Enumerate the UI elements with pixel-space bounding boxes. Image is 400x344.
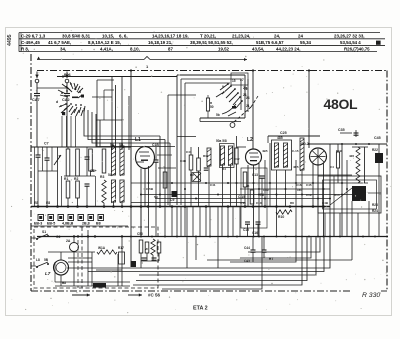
- svg-text:48OL: 48OL: [324, 96, 359, 112]
- svg-text:S1: S1: [42, 230, 46, 234]
- svg-text:R14: R14: [334, 193, 340, 197]
- svg-text:R10: R10: [278, 215, 284, 219]
- svg-text:C19: C19: [263, 188, 269, 192]
- svg-text:C16: C16: [252, 231, 258, 235]
- svg-text:R3: R3: [190, 173, 194, 177]
- svg-text:C7: C7: [44, 142, 49, 146]
- svg-text:EB-3: EB-3: [34, 222, 42, 226]
- svg-text:C35: C35: [338, 128, 345, 132]
- svg-text:53,54,54 4: 53,54,54 4: [340, 40, 361, 45]
- svg-text:C4B: C4B: [180, 159, 187, 163]
- svg-text:B8: B8: [62, 281, 66, 285]
- svg-text:50: 50: [210, 105, 214, 109]
- svg-text:5b: 5b: [216, 113, 220, 117]
- svg-text:R2: R2: [74, 177, 78, 181]
- svg-text:T 20,21,: T 20,21,: [200, 34, 216, 39]
- svg-text:C45: C45: [244, 259, 250, 263]
- svg-text:C45: C45: [374, 136, 381, 140]
- svg-text:485: 485: [277, 136, 283, 140]
- svg-text:E8: E8: [46, 201, 50, 205]
- svg-text:34,: 34,: [60, 46, 66, 51]
- svg-text:R4: R4: [222, 167, 226, 171]
- svg-text:5B: 5B: [44, 258, 49, 262]
- svg-text:8,9,10A,12 E 15,: 8,9,10A,12 E 15,: [88, 40, 121, 45]
- svg-text:R17: R17: [118, 246, 124, 250]
- svg-text:CA2: CA2: [62, 98, 70, 102]
- svg-text:21: 21: [243, 93, 247, 97]
- svg-text:R6: R6: [260, 193, 264, 197]
- svg-text:C4: C4: [330, 165, 334, 169]
- svg-text:5B: 5B: [119, 143, 124, 147]
- svg-text:R26,(7)40,75: R26,(7)40,75: [344, 46, 370, 51]
- svg-text:L8: L8: [36, 258, 40, 262]
- svg-text:14,23,16,17 18 19,: 14,23,16,17 18 19,: [152, 34, 189, 39]
- svg-text:C41: C41: [210, 183, 216, 187]
- svg-text:160: 160: [297, 188, 302, 192]
- svg-text:50a 5/8: 50a 5/8: [216, 139, 227, 143]
- svg-text:CA7: CA7: [32, 98, 40, 102]
- svg-text:R24: R24: [372, 209, 378, 213]
- svg-text:2B,8: 2B,8: [82, 222, 90, 226]
- svg-text:R1: R1: [64, 177, 68, 181]
- svg-text:C50: C50: [137, 232, 143, 236]
- svg-text:C1B: C1B: [152, 143, 159, 147]
- svg-text:4,8B,B: 4,8B,B: [62, 222, 74, 226]
- svg-text:C4B: C4B: [322, 201, 329, 205]
- svg-text:4,41A,: 4,41A,: [100, 46, 113, 51]
- svg-text:21,23,24,: 21,23,24,: [232, 34, 250, 39]
- svg-text:43,54,: 43,54,: [252, 46, 264, 51]
- svg-text:B8: B8: [96, 222, 101, 226]
- svg-text:55,34: 55,34: [300, 40, 312, 45]
- svg-text:27: 27: [240, 78, 244, 82]
- svg-text:L2: L2: [247, 137, 253, 143]
- svg-text:5A: 5A: [110, 143, 115, 147]
- svg-text:6, 6,: 6, 6,: [119, 34, 128, 39]
- svg-text:2b: 2b: [243, 86, 247, 90]
- svg-text:R 8,: R 8,: [21, 46, 29, 51]
- svg-text:EB-5: EB-5: [47, 222, 55, 226]
- svg-text:#C 56: #C 56: [148, 293, 161, 298]
- svg-text:d: d: [56, 100, 58, 104]
- svg-text:C41: C41: [186, 150, 192, 154]
- svg-text:R22: R22: [372, 148, 378, 152]
- svg-text:51B,75 6.6,57: 51B,75 6.6,57: [256, 40, 284, 45]
- svg-text:10,15,: 10,15,: [102, 34, 114, 39]
- svg-text:4,10: 4,10: [240, 201, 246, 205]
- svg-text:C6: C6: [56, 235, 60, 239]
- svg-text:R 330: R 330: [362, 292, 380, 299]
- svg-text:16,18,19 21,: 16,18,19 21,: [148, 40, 172, 45]
- svg-text:C25: C25: [280, 131, 287, 135]
- svg-text:23,26,27 32 33,: 23,26,27 32 33,: [334, 34, 365, 39]
- svg-text:24: 24: [298, 34, 303, 39]
- svg-text:24,: 24,: [274, 34, 280, 39]
- svg-text:30,8 5/40 8,31: 30,8 5/40 8,31: [62, 34, 91, 39]
- svg-text:C45: C45: [306, 183, 312, 187]
- svg-text:C-29 6,7 1,3: C-29 6,7 1,3: [21, 34, 46, 39]
- svg-text:87: 87: [168, 46, 173, 51]
- svg-text:4B5: 4B5: [262, 149, 268, 153]
- svg-text:C44: C44: [244, 246, 250, 250]
- svg-text:C15: C15: [243, 228, 249, 232]
- svg-text:W1A: W1A: [98, 246, 106, 250]
- svg-text:C-15: C-15: [292, 149, 299, 153]
- svg-text:15: 15: [232, 79, 236, 83]
- svg-text:B06: B06: [64, 73, 71, 77]
- svg-text:C-49A,45: C-49A,45: [21, 40, 40, 45]
- svg-text:R23: R23: [372, 203, 378, 207]
- svg-text:4495: 4495: [7, 34, 13, 46]
- svg-text:44,22,23 24,: 44,22,23 24,: [276, 46, 300, 51]
- svg-text:8,10,: 8,10,: [130, 46, 140, 51]
- svg-text:C-5B: C-5B: [146, 187, 154, 191]
- svg-text:45: 45: [246, 184, 250, 188]
- svg-text:L1: L1: [135, 137, 141, 143]
- svg-text:2A: 2A: [66, 239, 71, 243]
- svg-text:426: 426: [349, 154, 354, 158]
- svg-text:5A: 5A: [108, 173, 113, 177]
- svg-text:ETA 2: ETA 2: [193, 306, 208, 312]
- svg-text:R3: R3: [100, 175, 104, 179]
- svg-text:41 6,7 5AE,: 41 6,7 5AE,: [48, 40, 71, 45]
- svg-text:9: 9: [222, 85, 224, 89]
- svg-text:R8: R8: [290, 201, 294, 205]
- svg-text:C13: C13: [252, 173, 258, 177]
- svg-text:R7: R7: [269, 257, 273, 261]
- svg-text:C8: C8: [90, 169, 94, 173]
- svg-text:C16: C16: [296, 183, 302, 187]
- svg-text:38,39,51 50,51,55 52,: 38,39,51 50,51,55 52,: [190, 40, 233, 45]
- svg-text:19,52: 19,52: [218, 46, 230, 51]
- svg-text:C19: C19: [306, 193, 312, 197]
- svg-text:W: W: [145, 247, 148, 251]
- svg-text:L7: L7: [45, 271, 51, 276]
